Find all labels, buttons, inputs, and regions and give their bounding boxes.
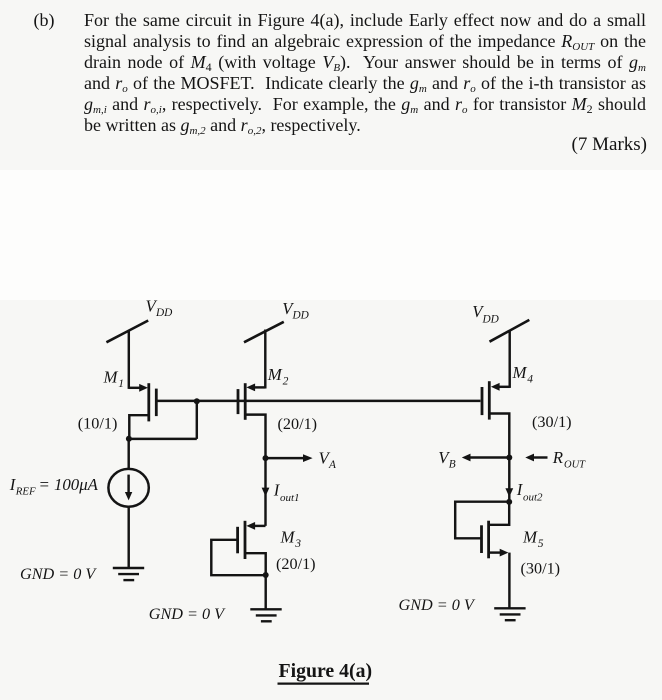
- node VA junction dot: [263, 455, 269, 461]
- power VDD symbol 3 (slash): [490, 320, 530, 342]
- figure caption: [279, 660, 373, 683]
- node A junction dot (M1 gate/drain tie): [194, 398, 200, 404]
- junction dot M5 drain/gate node: [506, 499, 512, 505]
- power VDD symbol 2 (slash): [244, 322, 284, 343]
- wire M1 drain to IREF: [127, 439, 129, 469]
- wire VB node to M5 drain: [508, 458, 510, 502]
- transistor M2 (PMOS): [238, 383, 266, 458]
- transistor M5 (NMOS, diode-connected): [455, 502, 509, 609]
- ground symbol GND2: [250, 609, 281, 621]
- wire IREF to GND1: [127, 507, 129, 568]
- transistor M4 (PMOS): [482, 381, 510, 457]
- label M1: [103, 368, 125, 391]
- label IREF = 100uA: [9, 475, 99, 497]
- label VA: [319, 449, 337, 472]
- wire node A down: [196, 401, 198, 439]
- ground symbol GND3: [494, 608, 525, 620]
- marks: [572, 134, 647, 155]
- arrow to VB label: [462, 454, 510, 462]
- current arrow Iout2: [505, 488, 513, 497]
- wire diode loop to M1 drain: [129, 438, 197, 440]
- node VB junction dot: [506, 455, 512, 461]
- wire VDD3 to M4 source: [508, 331, 510, 388]
- label Iout2: [516, 480, 543, 504]
- junction dot M1 drain node: [126, 436, 132, 442]
- label VDD rail 1: [146, 297, 173, 320]
- current source IREF: [108, 469, 148, 507]
- wire M3 to GND2: [264, 575, 266, 609]
- transistor M1 (PMOS, diode-connected): [129, 383, 157, 439]
- wire VA node to M3 drain: [264, 458, 266, 526]
- label VDD rail 2: [282, 299, 309, 322]
- label VB: [438, 448, 456, 471]
- wire gate bus M1-M2-M4: [158, 400, 481, 402]
- arrow ROUT pointing at VB node: [525, 454, 547, 462]
- label M3: [280, 528, 302, 551]
- wire VDD1 to M1 source: [128, 330, 130, 389]
- label M5: [522, 528, 544, 551]
- problem statement text: [34, 10, 55, 31]
- label ROUT: [552, 448, 586, 471]
- wire VDD2 to M2 source: [264, 330, 266, 389]
- transistor M3 (NMOS): [211, 521, 265, 575]
- junction dot M3 source/gate node: [263, 572, 269, 578]
- current arrow Iout1: [262, 488, 270, 497]
- label VDD rail 3: [472, 302, 499, 326]
- arrow to VA label: [266, 454, 313, 462]
- ground symbol GND1: [113, 568, 144, 580]
- label M4: [512, 363, 534, 386]
- power VDD symbol 1 (slash): [106, 321, 148, 343]
- label Iout1: [273, 481, 300, 505]
- label M2: [267, 365, 289, 388]
